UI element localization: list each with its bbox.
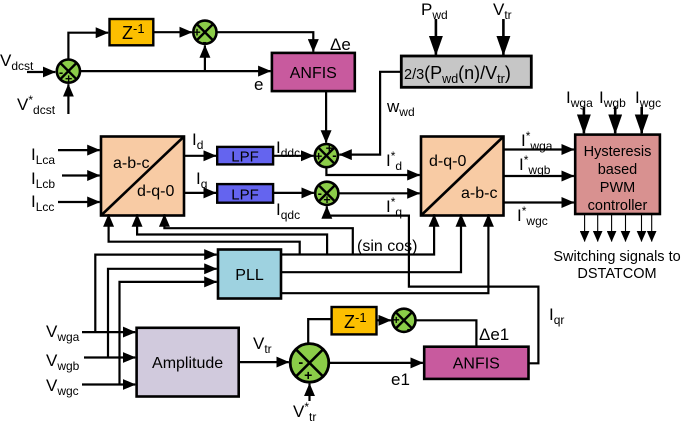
summing junction S5 [290, 344, 329, 383]
svg-text:a-b-c: a-b-c [113, 155, 149, 172]
svg-text:Amplitude: Amplitude [152, 355, 223, 372]
wire switching signal 6 [651, 214, 653, 242]
wire switching signal 1 [584, 214, 586, 242]
wire Vwga branch to PLL input 1 [95, 255, 216, 333]
wire S3 output I*d into dq0-abc block [326, 167, 419, 175]
wire Iqdc to summer S4 [273, 192, 314, 194]
wire Vwgb into amplitude block [84, 356, 135, 358]
wire I*wga to hysteresis controller [504, 148, 574, 150]
svg-text:Δe: Δe [330, 35, 351, 54]
svg-text:d-q-0: d-q-0 [137, 183, 174, 200]
svg-text:LPF: LPF [231, 149, 259, 166]
svg-text:LPF: LPF [231, 187, 259, 204]
wire switching signal 5 [641, 214, 643, 242]
wire wwd from feedforward block to summer S3 [339, 72, 401, 155]
svg-text:+: + [193, 26, 200, 40]
wire ILcc into abc-dq0 block [58, 201, 100, 203]
wire sincos tap 1 to abc-dq0 bottom input 1 [109, 214, 300, 255]
wire S2 output to ANFIS1 top (delta-e) [217, 32, 314, 51]
svg-text:-: - [407, 322, 411, 336]
svg-text:Δe1: Δe1 [479, 325, 509, 344]
wire switching signal 3 [611, 214, 613, 242]
svg-text:a-b-c: a-b-c [461, 185, 497, 202]
wire PLL output 3 to dq0-abc bottom input 3 [281, 214, 488, 293]
summing junction S2 [193, 21, 216, 50]
svg-text:PWM: PWM [600, 180, 635, 196]
summing junction S3 [315, 142, 338, 168]
svg-text:+: + [65, 72, 72, 86]
delay block Z-1 (top) [110, 19, 154, 45]
transform block dq0 to abc [421, 137, 504, 216]
wire PLL sincos bus to dq0-abc bottom input 1 [281, 214, 434, 254]
block amplitude [137, 328, 239, 397]
svg-text:-: - [332, 148, 336, 163]
wire Vwgc into amplitude block [82, 383, 135, 385]
svg-text:2/3(Pwd(n)/Vtr): 2/3(Pwd(n)/Vtr) [404, 63, 511, 86]
svg-text:based: based [598, 162, 638, 178]
wire Vwgc branch to PLL input 3 [120, 282, 217, 385]
svg-text:PLL: PLL [235, 267, 264, 284]
wire e from S1 into ANFIS1 [80, 70, 271, 72]
svg-text:ANFIS: ANFIS [453, 356, 500, 373]
svg-text:Switching signals to: Switching signals to [553, 249, 680, 265]
svg-text:ANFIS: ANFIS [290, 65, 337, 82]
wire ILcb into abc-dq0 block [62, 174, 100, 176]
wire PLL output 2 to dq0-abc bottom input 2 [281, 214, 461, 272]
wire Id to LPF1 [184, 155, 216, 157]
svg-text:d-q-0: d-q-0 [429, 153, 466, 170]
wire Iwga down into hysteresis controller [583, 107, 586, 133]
wire ANFIS1 output down to summer S3 [325, 91, 327, 143]
svg-text:-: - [298, 355, 303, 371]
controller ANFIS1 [272, 53, 355, 91]
feedforward block 2/3(Pwd(n)/Vtr) [401, 56, 531, 87]
wire S6 output delta-e1 into ANFIS2 top [416, 320, 477, 346]
svg-text:e: e [254, 75, 263, 94]
wire I*wgc to hysteresis controller [504, 201, 574, 203]
wire S5 top branch to Z-1 (bottom) [308, 319, 331, 343]
filter LPF2 [217, 184, 273, 203]
summing junction S1 [57, 60, 80, 87]
wire switching signal 2 [597, 214, 599, 242]
transform block abc to dq0 [101, 137, 184, 216]
wire Iqr feedback from ANFIS2 up into S4 [327, 206, 539, 363]
svg-text:e1: e1 [391, 370, 410, 389]
summing junction S6 [392, 309, 415, 337]
wire Vwga into amplitude block [82, 331, 135, 333]
wire sincos tap 2 to abc-dq0 bottom input 2 [137, 214, 327, 255]
controller ANFIS2 [424, 347, 528, 379]
wire switching signal 4 [625, 214, 627, 242]
wire ILca into abc-dq0 block [58, 149, 100, 151]
wire Iwgb down into hysteresis controller [614, 107, 617, 133]
wire Vdcst into summer S1 [27, 71, 55, 73]
svg-text:controller: controller [588, 198, 648, 214]
wire I*wgb to hysteresis controller [504, 175, 574, 177]
wire Z-1 to summer S6 [377, 319, 391, 321]
svg-text:+: + [393, 315, 400, 327]
summing junction S4 [315, 182, 338, 208]
wire Iwgc down into hysteresis controller [640, 107, 643, 133]
wire Iddc to summer S3 [273, 155, 313, 157]
svg-text:-: - [59, 64, 63, 79]
svg-text:DSTATCOM: DSTATCOM [577, 266, 656, 282]
wire Iq to LPF2 [184, 192, 216, 194]
wire e1 from S5 into ANFIS2 [329, 362, 423, 364]
svg-text:(sin cos): (sin cos) [357, 238, 417, 255]
wire Vtr down into feedforward block [502, 19, 505, 55]
controller hysteresis based PWM [575, 135, 660, 214]
wire Z-1 to summer S2 [153, 31, 192, 33]
wire Vtr from amplitude to summer S5 [239, 361, 289, 363]
wire V*tr up into summer S5 [308, 384, 310, 401]
wire V*dcst up into summer S1 [67, 84, 69, 114]
wire S1 top branch to Z-1 [68, 33, 108, 60]
block PLL [218, 250, 281, 299]
svg-text:Hysteresis: Hysteresis [584, 144, 652, 160]
wire sincos tap 3 to abc-dq0 bottom input 3 [164, 214, 352, 255]
svg-text:+: + [304, 367, 312, 383]
wire e branch up into S2 [204, 45, 206, 71]
delay block Z-1 (bottom) [332, 307, 377, 334]
wire S4 output I*q into dq0-abc block [338, 192, 419, 194]
filter LPF1 [217, 147, 273, 166]
svg-text:+: + [315, 149, 322, 163]
svg-text:-: - [318, 186, 322, 201]
wire Vwgb branch to PLL input 2 [108, 269, 217, 358]
wire Pwd down into feedforward block [435, 19, 438, 55]
svg-text:+: + [323, 193, 330, 207]
